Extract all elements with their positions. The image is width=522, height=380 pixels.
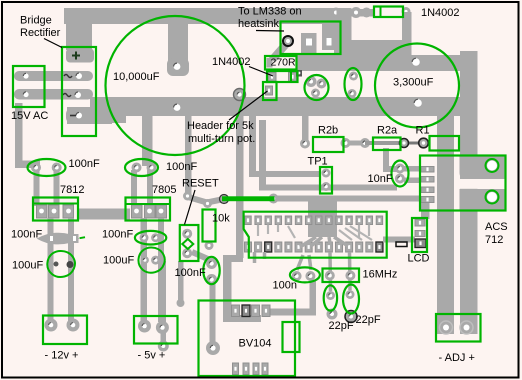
diode D2 1N4002 annotation box — [374, 7, 403, 18]
capacitor C3 100nF pads col1 — [31, 163, 62, 173]
wire trace3 to ACS — [274, 196, 421, 202]
label R2a — [377, 125, 398, 137]
capacitor C3 annotation ellipse col1 — [28, 159, 66, 176]
capacitor C1 bottom pad hole — [174, 104, 181, 111]
svg-text:multi-turn pot.: multi-turn pot. — [188, 133, 255, 145]
terminal -5v pads — [138, 320, 169, 335]
capacitor pads at 353 — [348, 72, 359, 99]
label 15V AC — [11, 110, 48, 122]
resistor R2a pads — [365, 141, 404, 145]
wire top power rail — [64, 8, 374, 50]
bridge rectifier pad + — [66, 49, 94, 63]
svg-text:100nF: 100nF — [69, 158, 100, 170]
svg-text:100nF: 100nF — [11, 229, 42, 241]
capacitor C7 annotation ellipse mid — [203, 257, 219, 284]
svg-text:100n: 100n — [273, 280, 297, 292]
label 3,300uF — [393, 77, 434, 89]
IC U2 ACS712 annotation box — [420, 156, 506, 211]
IC LCD connector pads — [383, 203, 430, 248]
regulator VR2 7805 pads — [132, 205, 167, 218]
capacitor C12 100uF pads col2 — [141, 256, 160, 265]
wire central block into socket — [308, 198, 337, 237]
label 10k — [212, 213, 230, 225]
label RESET — [182, 178, 219, 225]
resistor R3 10k bottom pad — [205, 241, 214, 250]
capacitor C6 100uF marks col1 — [54, 261, 74, 268]
wire upper right bus — [297, 8, 477, 71]
capacitor C7 100nF pads mid — [206, 258, 217, 285]
terminal -12v annotation box — [43, 316, 87, 345]
svg-text:100uF: 100uF — [12, 260, 43, 272]
IC BV104 bottom pads — [233, 363, 269, 375]
wire BV104 internal vertical — [210, 284, 216, 344]
label Bridge Rectifier — [20, 15, 62, 48]
IC BV104 annotation box — [199, 301, 300, 377]
capacitor C12 100uF annotation circle col2 — [138, 247, 164, 272]
wire col1 to -12v terminal — [48, 218, 75, 322]
capacitor C13 10nF annotation ellipse — [392, 161, 409, 187]
svg-text:- ADJ +: - ADJ + — [439, 352, 475, 364]
wire jumper green — [222, 196, 275, 201]
diode D2 1N4002 pad and wire down — [402, 7, 412, 56]
svg-text:10,000uF: 10,000uF — [113, 71, 160, 83]
svg-text:- 12v +: - 12v + — [45, 350, 79, 362]
capacitor C11 100nF pads col2 lower — [140, 233, 161, 242]
svg-text:1N4002: 1N4002 — [212, 56, 251, 68]
diode D1 annotation box — [263, 82, 277, 100]
wire TP1 trace1 — [249, 116, 321, 177]
IC U1 socket bottom pad row — [245, 242, 383, 252]
resistor R2a annotation box — [373, 138, 401, 151]
svg-text:22pF: 22pF — [356, 314, 381, 326]
label 16MHz — [363, 269, 398, 281]
resistor R3 10k annotation box — [203, 210, 216, 242]
regulator U3 LM338 heatsink pads — [272, 19, 337, 60]
label -5v+ — [138, 350, 166, 362]
terminal -12v pads — [45, 319, 80, 332]
label 100n — [273, 280, 297, 292]
wire 100n to BV104 — [270, 280, 316, 316]
wire TP1 trace2 — [259, 120, 397, 191]
bridge rectifier BR1 annotation box — [62, 47, 96, 136]
wire 15V AC strip 2 to bridge ~ — [14, 89, 93, 100]
resistor R2b pads and link — [300, 116, 370, 149]
resistor R4 270R pads — [267, 58, 303, 81]
label 100nF col1 lower — [11, 229, 42, 241]
crystal X1 16MHz annotation box — [323, 269, 360, 283]
svg-text:270R: 270R — [271, 57, 297, 69]
regulator U3 LM338 annotation box — [281, 22, 341, 55]
svg-text:BV104: BV104 — [239, 338, 272, 350]
label 10nF — [368, 173, 393, 185]
svg-text:100uF: 100uF — [103, 255, 134, 267]
capacitor C2 top pad hole — [412, 58, 420, 66]
wire reset net segment — [185, 116, 224, 203]
capacitor C1 top pad and leg — [167, 22, 189, 76]
svg-text:LCD: LCD — [408, 253, 430, 265]
diode D1 1N4002 pads — [234, 86, 273, 101]
svg-text:RESET: RESET — [182, 178, 219, 190]
node pad A1 — [183, 192, 192, 201]
label 7812 — [60, 184, 84, 196]
label 100nF mid — [175, 267, 206, 279]
capacitor C4 100nF pads col2 — [132, 163, 157, 173]
node LCD minus mark — [396, 242, 407, 247]
label R1 — [416, 125, 430, 137]
wire socket fanout — [255, 225, 373, 292]
svg-text:To LM338 on: To LM338 on — [238, 6, 302, 18]
wire middle horizontal bus — [67, 97, 461, 124]
wire reset to BV104 left — [158, 261, 185, 352]
capacitor C8 100n pads — [292, 271, 316, 281]
capacitor C1 10000uF annotation circle — [106, 16, 245, 155]
label 100nF col2 lower — [102, 229, 133, 241]
svg-text:10nF: 10nF — [368, 173, 393, 185]
svg-text:Bridge: Bridge — [20, 15, 52, 27]
terminal -ADJ pads — [440, 321, 474, 334]
label 100uF col1 — [12, 260, 43, 272]
capacitor C9 22pF pads — [326, 291, 338, 320]
label LCD — [408, 253, 430, 265]
wire col2 capacitor drops — [131, 170, 153, 206]
svg-text:16MHz: 16MHz — [363, 269, 398, 281]
wire left L from AC input down to C3 area — [15, 103, 40, 168]
capacitor C5 100nF lens col1 — [37, 233, 80, 245]
label 270R — [271, 57, 297, 69]
testpoint TP1 annotation box — [320, 167, 332, 194]
label 1N4002 mid — [212, 56, 273, 76]
svg-text:TP1: TP1 — [308, 156, 328, 168]
IC U2 ACS712 copper block — [455, 156, 506, 211]
terminal -5v annotation box — [134, 316, 178, 344]
wire col1 capacitor drops — [34, 170, 60, 206]
label 100nF col2 — [166, 161, 197, 173]
wire between regulators — [78, 209, 130, 220]
label Header for 5k multi-turn pot — [187, 91, 268, 145]
label 22pF left — [329, 320, 354, 332]
label 1N4002 top right — [421, 7, 460, 19]
capacitor C10 22pF annotation ellipse — [343, 285, 359, 314]
wire vertical feed to IC socket — [223, 116, 261, 322]
svg-text:10k: 10k — [212, 213, 230, 225]
regulator VR2 7805 annotation box — [126, 198, 171, 221]
node pads on top rail right — [331, 7, 372, 18]
node pad A2 — [203, 199, 212, 208]
label 7805 — [152, 184, 176, 196]
IC BV104 top pads — [232, 305, 271, 317]
label 22pF right — [356, 314, 381, 326]
svg-text:ACS: ACS — [485, 221, 508, 233]
wire vertical V2 to ADJ+ — [460, 51, 478, 334]
switch SW1 reset pads — [182, 229, 208, 259]
capacitor C4 annotation ellipse col2 — [125, 159, 158, 176]
switch SW1 RESET annotation box — [180, 225, 199, 261]
regulator VR1 7812 annotation box — [33, 198, 78, 221]
svg-text:- 5v +: - 5v + — [138, 350, 166, 362]
resistor R4 270R annotation box — [265, 56, 297, 70]
bridge rectifier pad - — [66, 108, 94, 124]
IC U1 socket top pad row — [245, 216, 383, 225]
regulator VR1 7812 pads — [37, 205, 74, 218]
node pad A4 — [269, 194, 279, 204]
capacitor C2 bottom pad hole — [414, 99, 422, 107]
capacitor C2 3300uF annotation circle — [375, 44, 459, 128]
label 100nF col1 — [69, 158, 100, 170]
svg-text:Rectifier: Rectifier — [20, 27, 61, 39]
svg-text:1N4002: 1N4002 — [421, 7, 460, 19]
potentiometer header pads cluster — [306, 76, 327, 98]
label R2b — [318, 125, 338, 137]
svg-text:7812: 7812 — [60, 184, 84, 196]
IC U2 ACS712 left stub pads — [421, 167, 434, 203]
node pad A3 — [220, 195, 229, 204]
node BV104 round pad — [206, 341, 220, 355]
resistor R1 annotation box — [430, 136, 460, 151]
svg-text:R2a: R2a — [377, 125, 398, 137]
svg-text:100nF: 100nF — [175, 267, 206, 279]
svg-text:heatsink: heatsink — [238, 18, 279, 30]
svg-text:15V AC: 15V AC — [11, 110, 48, 122]
capacitor C9 22pF annotation ellipse — [324, 285, 337, 310]
label -ADJ+ — [439, 352, 475, 364]
svg-text:R2b: R2b — [318, 125, 338, 137]
terminal -ADJ annotation box — [436, 314, 481, 342]
svg-text:22pF: 22pF — [329, 320, 354, 332]
wire col2 to -5v terminal — [141, 218, 165, 322]
label To LM338 on heatsink — [238, 6, 302, 32]
label 10,000uF — [113, 71, 160, 83]
label ACS 712 — [485, 221, 508, 246]
label 100uF col2 — [103, 255, 134, 267]
capacitor C5 lens green tick — [80, 237, 85, 238]
svg-text:R1: R1 — [416, 125, 430, 137]
capacitor C13 10nF pads — [395, 164, 421, 184]
terminal 15V AC annotation box — [13, 66, 45, 107]
capacitor C6 100uF annotation circle col1 — [47, 251, 75, 277]
label -12v+ — [45, 350, 79, 362]
resistor R2b annotation box — [313, 137, 344, 152]
svg-text:100nF: 100nF — [102, 229, 133, 241]
LCD annotation box — [412, 218, 427, 252]
potentiometer header annotation circle — [305, 75, 329, 100]
svg-text:100nF: 100nF — [166, 161, 197, 173]
wire col2 from bus — [142, 116, 153, 166]
crystal X1 16MHz pads — [325, 271, 356, 281]
wire vertical V1 to ADJ- — [437, 110, 454, 334]
resistor R1 pads dumbbell — [400, 138, 429, 148]
capacitor annotation ellipse at 353 — [345, 68, 362, 100]
wire 15V AC strip 1 to bridge ~ — [14, 71, 93, 81]
svg-text:7805: 7805 — [152, 184, 176, 196]
testpoint TP1 pads — [322, 169, 331, 192]
svg-text:712: 712 — [485, 234, 503, 246]
label TP1 — [308, 156, 328, 168]
svg-text:3,300uF: 3,300uF — [393, 77, 434, 89]
capacitor C10 22pF pads — [345, 290, 357, 323]
resistor annotation box below 270R — [267, 71, 298, 82]
wire R junction to 10nF — [383, 148, 397, 172]
label BV104 — [239, 338, 272, 350]
capacitor C8 100n annotation ellipse — [290, 267, 320, 282]
capacitor C11 annotation ellipse col2 lower — [135, 231, 166, 245]
IC U1 socket annotation box — [244, 212, 387, 258]
svg-text:Header for 5k: Header for 5k — [187, 120, 254, 132]
